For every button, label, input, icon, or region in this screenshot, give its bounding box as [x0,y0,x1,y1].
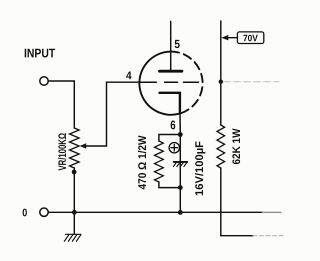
capacitor C1 wire through [179,135,181,213]
svg-text:0: 0 [22,207,27,219]
pot wiper arrow [85,145,107,147]
junction dot pot bottom [72,170,77,175]
plate bar [160,70,182,73]
svg-text:5: 5 [174,37,180,51]
ground symbol chassis [66,233,81,235]
junction dot cathode node [178,132,183,137]
input terminal J1 (hot) [40,77,48,85]
svg-text:16V/100µF: 16V/100µF [194,141,206,196]
input terminal J2 (ground) [40,208,48,216]
resistor R 470 bottom wire [159,182,180,188]
grid dashes [165,81,178,83]
capacitor plate hatching [173,163,176,167]
junction dot ground rail / pot [72,210,77,215]
wire pot bottom to ground rail [73,168,75,212]
capacitor plus marker [169,143,179,153]
junction dot B+ rail node [219,80,223,84]
junction dot resistor bottom [178,185,183,190]
wire input terminal to pot top [48,81,74,128]
tube envelope solid arc (left) [139,52,179,115]
svg-text:INPUT: INPUT [24,46,55,60]
junction dot cap to rail [178,210,183,215]
tube envelope dashed arc (right) [171,52,203,114]
svg-text:470 Ω 1/2W: 470 Ω 1/2W [137,135,149,189]
resistor R 470 ohm zigzag [155,141,164,182]
faint wire stub right of rail [224,81,280,83]
svg-text:70V: 70V [243,32,258,43]
capacitor negative plate bar [174,161,188,163]
cathode bar and lead pin 6 [160,93,180,112]
70V arrow [227,37,238,39]
wire wiper to grid (pin 4) [107,82,140,146]
resistor R 470 ohm branch top wire [159,135,180,142]
grid wire inside tube (solid part) [139,81,156,83]
svg-text:VR/100KΩ: VR/100KΩ [57,133,69,171]
plate lead pin 5 [170,22,172,72]
70V box [237,32,263,44]
svg-text:4: 4 [126,70,132,82]
ground symbol lead [73,212,75,234]
resistor R 62K zigzag [217,125,225,168]
potentiometer VR 100K zigzag [70,128,80,168]
svg-text:62K 1W: 62K 1W [231,128,243,165]
svg-text:6: 6 [170,118,175,132]
ground rail wire [48,211,262,213]
B+ rail vertical [220,21,222,125]
